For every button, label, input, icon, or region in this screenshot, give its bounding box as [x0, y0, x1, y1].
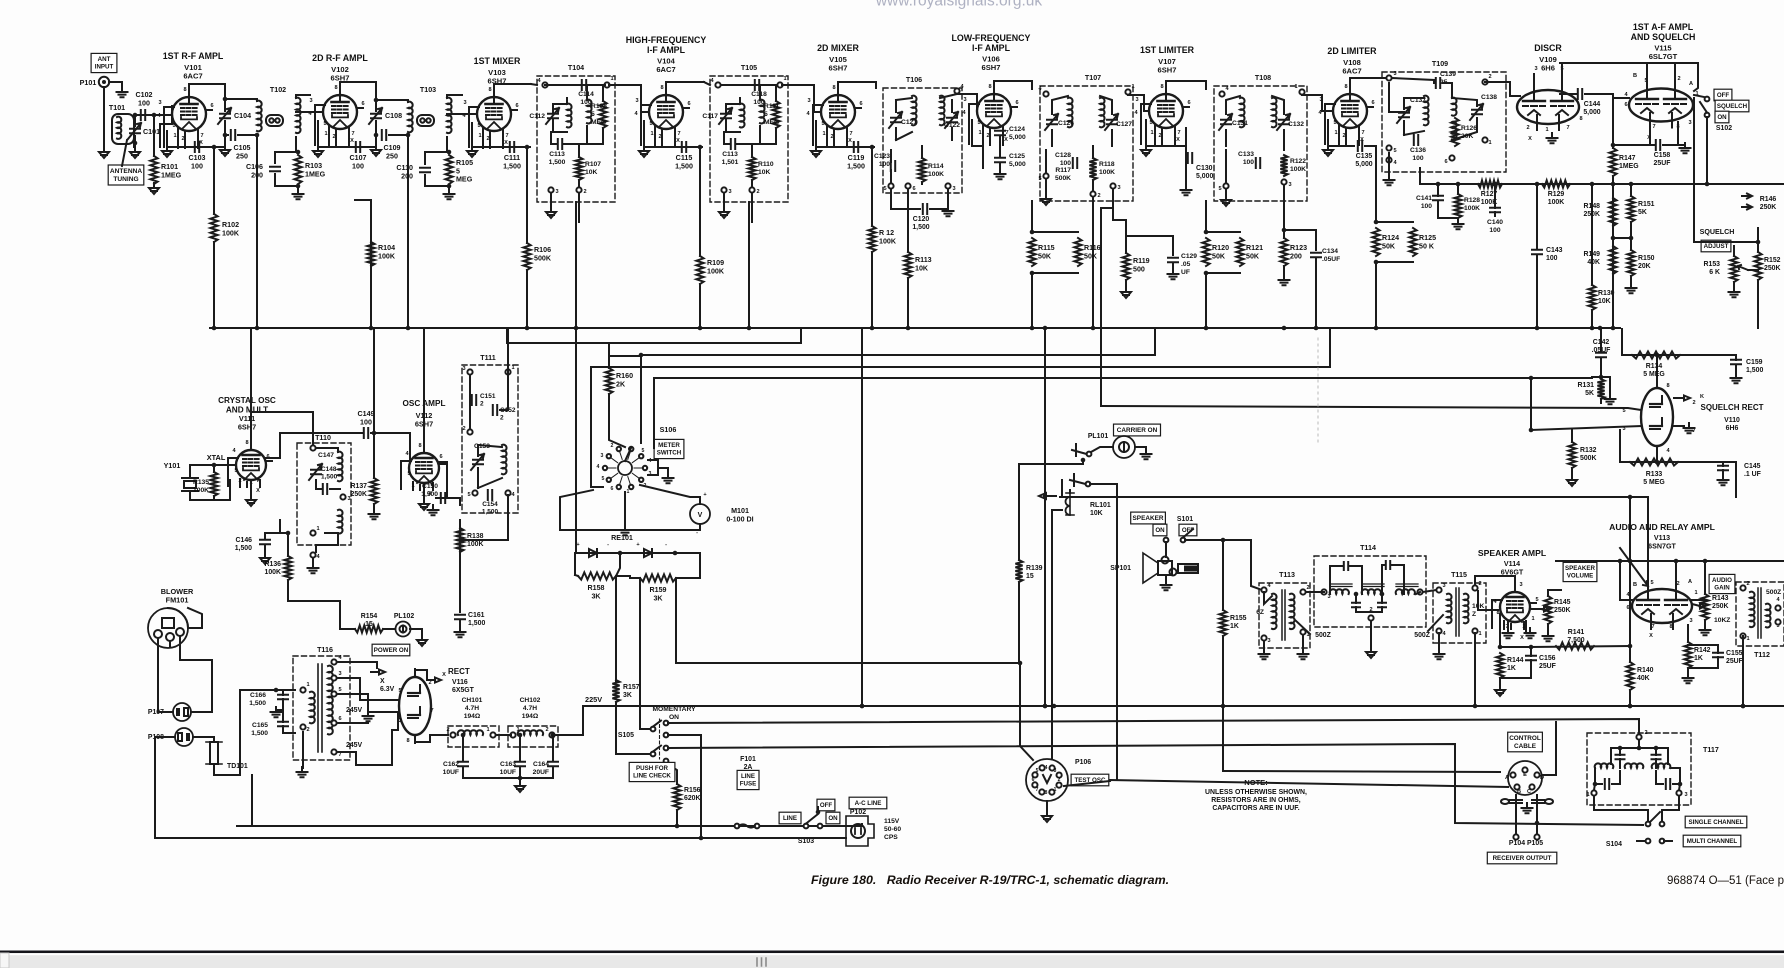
wire down to bus	[256, 135, 258, 328]
label POWER ON	[372, 644, 410, 656]
resistor R150	[1627, 250, 1634, 276]
svg-text:A-C LINE: A-C LINE	[855, 800, 882, 807]
svg-text:C132: C132	[1288, 121, 1304, 128]
ground	[1700, 625, 1711, 635]
wire	[1530, 647, 1532, 656]
wire bus to R137	[373, 329, 375, 478]
T115 terminal 3	[1436, 587, 1441, 592]
T111 winding	[502, 445, 507, 475]
wire R156 to AC	[676, 810, 678, 826]
svg-text:C1591,500: C1591,500	[1746, 359, 1763, 374]
svg-text:1: 1	[1478, 631, 1481, 637]
wire	[1621, 329, 1623, 355]
T110 terminal 3	[340, 494, 345, 499]
resistor R133	[1630, 458, 1678, 465]
capacitor C121	[891, 118, 901, 122]
ground	[1279, 275, 1290, 285]
junction	[223, 133, 228, 138]
wire P104 lead	[1515, 795, 1517, 834]
svg-text:5: 5	[338, 687, 341, 693]
svg-text:5: 5	[883, 186, 886, 192]
svg-text:T111: T111	[480, 354, 495, 362]
wire	[999, 164, 1001, 172]
svg-text:X: X	[848, 138, 852, 144]
ground	[1221, 195, 1231, 206]
svg-text:3: 3	[1117, 185, 1120, 191]
wire	[726, 103, 740, 105]
ground	[1041, 194, 1051, 205]
junction	[133, 113, 138, 118]
wire R102 to AVC bus	[213, 242, 215, 328]
wire	[1688, 657, 1718, 668]
junction	[212, 326, 217, 331]
junction	[286, 531, 291, 536]
wire blower lead 2	[180, 643, 212, 703]
wire	[1264, 592, 1272, 604]
wire R106 to bus	[526, 270, 528, 328]
wire cathode	[472, 123, 530, 147]
ground	[1168, 269, 1179, 279]
wire	[1457, 218, 1459, 222]
wire	[425, 175, 449, 186]
wire	[1375, 160, 1377, 222]
wire	[545, 84, 605, 86]
ground	[1684, 423, 1695, 433]
wire	[1283, 130, 1285, 150]
svg-text:P106: P106	[1075, 759, 1091, 766]
transformer T103 core	[417, 115, 434, 126]
ground	[1141, 449, 1152, 459]
capacitor C119	[854, 142, 858, 152]
resistor R160	[605, 368, 612, 394]
ground	[943, 206, 954, 216]
svg-text:R1345 MEG: R1345 MEG	[1643, 363, 1665, 378]
T117 terminal 1	[1591, 790, 1596, 795]
wire	[1356, 607, 1371, 612]
wire	[552, 747, 554, 760]
wire	[1046, 801, 1048, 812]
capacitor C122	[947, 118, 957, 122]
wire	[264, 533, 266, 538]
wire	[340, 601, 355, 629]
wire	[1594, 784, 1595, 790]
rotary switch S106	[603, 447, 647, 489]
svg-text:1: 1	[1545, 127, 1548, 133]
wire	[459, 621, 461, 630]
transformer T109	[1382, 72, 1506, 172]
wire	[553, 103, 567, 105]
wire	[282, 699, 284, 710]
T111 terminal 2	[467, 429, 472, 434]
svg-text:R135100K: R135100K	[193, 479, 209, 494]
wire	[1376, 221, 1413, 223]
T106 terminal 3	[945, 183, 950, 188]
svg-text:1: 1	[486, 727, 489, 733]
svg-text:GAIN: GAIN	[1714, 585, 1730, 592]
junction	[1590, 182, 1595, 187]
loudspeaker SP101	[1143, 553, 1198, 583]
wire	[1536, 184, 1538, 248]
resistor R122	[1280, 155, 1287, 176]
wire	[1185, 128, 1187, 158]
wire	[425, 151, 449, 153]
wire	[1100, 96, 1112, 114]
capacitor C105	[231, 130, 235, 140]
tube V107	[1141, 81, 1189, 145]
resistor R103	[294, 155, 301, 184]
transformer T104	[537, 76, 615, 202]
svg-text:P104 P105: P104 P105	[1509, 840, 1543, 847]
resistor R132	[1568, 442, 1575, 468]
capacitor C112	[548, 114, 558, 118]
svg-text:5: 5	[1393, 148, 1396, 154]
wire	[890, 150, 892, 162]
wire	[1594, 796, 1648, 821]
resistor R124	[1372, 228, 1379, 256]
wire	[591, 367, 603, 487]
junction	[518, 733, 523, 738]
svg-text:2: 2	[1677, 76, 1680, 82]
wire	[1656, 446, 1658, 462]
junction	[1030, 230, 1035, 235]
T104 primary winding	[567, 104, 572, 128]
svg-text:2: 2	[1644, 730, 1647, 736]
T105 primary winding	[740, 104, 745, 128]
svg-text:R137250K: R137250K	[350, 483, 367, 498]
capacitor C165	[278, 722, 288, 726]
svg-text:ANT: ANT	[98, 56, 111, 63]
wire AVC bus	[210, 327, 1620, 329]
wire	[1263, 641, 1265, 652]
wire	[624, 492, 626, 510]
capacitor C102	[141, 110, 145, 120]
wire	[1051, 746, 1053, 758]
junction	[447, 150, 452, 155]
T112 secondary winding	[1766, 604, 1771, 628]
wire	[1090, 484, 1117, 560]
wire	[158, 703, 173, 712]
capacitor C151	[472, 395, 476, 405]
svg-text:X: X	[504, 140, 508, 146]
svg-text:R114100K: R114100K	[928, 163, 944, 178]
junction	[374, 98, 379, 103]
ground	[419, 499, 429, 510]
T107 terminal 4	[1043, 91, 1048, 96]
T111 terminal 1	[505, 369, 510, 374]
wire	[1064, 781, 1110, 786]
svg-text:5: 5	[642, 448, 645, 454]
svg-text:2: 2	[756, 189, 759, 195]
capacitor C149	[364, 428, 368, 438]
T114 core	[1330, 584, 1352, 587]
junction	[1756, 240, 1761, 245]
wire	[1662, 796, 1679, 821]
svg-text:6Z: 6Z	[1256, 609, 1264, 616]
svg-text:K: K	[1700, 394, 1704, 400]
svg-text:S106: S106	[660, 426, 677, 434]
wire	[1735, 462, 1737, 497]
ground	[297, 767, 308, 777]
wire plate lead	[493, 84, 495, 97]
wire	[459, 520, 461, 612]
junction	[639, 353, 644, 358]
wire HV1 to rect	[337, 678, 398, 700]
T110 terminal 4	[310, 552, 315, 557]
junction	[223, 97, 228, 102]
wire	[1630, 276, 1632, 286]
T112 core	[1758, 588, 1761, 638]
wire	[1185, 158, 1187, 188]
wire	[478, 445, 502, 447]
wire	[1663, 122, 1678, 145]
capacitor C148	[311, 470, 321, 474]
transformer T105	[710, 76, 788, 202]
wire V115 pin1 to S102	[1694, 95, 1704, 97]
wire	[238, 134, 257, 136]
resistor R159	[640, 574, 676, 581]
svg-text:8: 8	[1045, 790, 1048, 796]
wire	[759, 85, 761, 100]
svg-text:B: B	[1633, 73, 1637, 79]
junction	[1628, 495, 1633, 500]
T116 terminal 7	[331, 749, 336, 754]
T110 terminal 1	[310, 530, 315, 535]
svg-text:C1481,500: C1481,500	[321, 466, 338, 481]
label OFF	[1714, 89, 1732, 101]
svg-text:MULTI CHANNEL: MULTI CHANNEL	[1687, 838, 1738, 845]
svg-text:8: 8	[1344, 84, 1347, 90]
wire to socket	[1020, 663, 1033, 760]
svg-text:2: 2	[1526, 125, 1529, 131]
svg-text:S105: S105	[618, 732, 634, 739]
svg-text:500Z: 500Z	[1414, 632, 1431, 639]
wire plate to T107	[994, 81, 1032, 89]
wire	[477, 445, 479, 456]
svg-text:C1111,500: C1111,500	[503, 154, 521, 170]
wire	[1355, 594, 1357, 603]
lamp PL101	[1113, 436, 1135, 458]
svg-text:5: 5	[323, 121, 326, 127]
svg-text:8: 8	[418, 443, 421, 449]
svg-text:8: 8	[1160, 84, 1163, 90]
resistor R136	[284, 556, 291, 580]
resistor R140	[1626, 662, 1633, 690]
ground	[455, 627, 466, 637]
T113 primary winding	[1272, 594, 1277, 629]
wire cathode	[1146, 120, 1186, 146]
wire control A	[1225, 771, 1500, 772]
junction	[699, 836, 704, 841]
T114 winding	[1396, 589, 1415, 594]
svg-text:OFF: OFF	[1717, 92, 1730, 99]
svg-text:1ST R-F AMPL: 1ST R-F AMPL	[163, 51, 224, 61]
wire	[370, 242, 372, 265]
switch carrier	[1087, 452, 1092, 457]
svg-text:7: 7	[430, 708, 433, 714]
wire	[1620, 561, 1632, 600]
ground	[371, 145, 381, 156]
T108 terminal 5	[1223, 183, 1228, 188]
wire to R102	[213, 147, 215, 214]
wire pair to bus	[1375, 262, 1377, 328]
wire T101 to C102	[134, 114, 160, 116]
wire	[436, 497, 447, 499]
wire	[895, 128, 897, 140]
wire	[1612, 98, 1614, 148]
wire	[814, 95, 821, 112]
svg-text:1: 1	[1150, 130, 1153, 136]
ground	[620, 525, 631, 535]
T104 terminal 4	[542, 82, 547, 87]
svg-text:2: 2	[181, 136, 184, 142]
wire down to bus	[407, 135, 409, 328]
T109 terminal 5	[1386, 145, 1391, 150]
CH102 winding	[518, 730, 543, 735]
tube V102	[315, 82, 363, 146]
svg-text:2: 2	[1369, 607, 1372, 613]
capacitor T114 Ca	[1344, 562, 1348, 570]
wire V113 plate2	[1675, 561, 1677, 589]
wire	[1630, 222, 1632, 250]
wire	[1619, 430, 1621, 462]
junction	[1043, 704, 1048, 709]
tube V106	[969, 81, 1017, 145]
label PUSH FOR LINE CHECK	[629, 762, 675, 781]
wire	[1613, 97, 1629, 99]
svg-text:500Z: 500Z	[1315, 632, 1332, 639]
wire	[1403, 121, 1405, 135]
svg-text:8: 8	[660, 85, 663, 91]
T113 terminal 2	[1300, 589, 1305, 594]
wire bottom loop	[1620, 461, 1736, 463]
wire run B	[591, 329, 1330, 367]
svg-text:1ST A-F AMPLAND SQUELCH: 1ST A-F AMPLAND SQUELCH	[1631, 22, 1696, 42]
wire	[550, 193, 552, 208]
wire	[1611, 747, 1668, 749]
junction	[518, 776, 523, 781]
ground	[271, 707, 282, 717]
svg-text:R118100K: R118100K	[1099, 161, 1115, 176]
wire antenna lead	[103, 87, 105, 150]
label A-C LINE	[849, 797, 887, 809]
svg-text:V1086AC7: V1086AC7	[1342, 58, 1361, 76]
ground	[811, 146, 821, 157]
wire	[921, 146, 923, 158]
svg-text:R146250K: R146250K	[1760, 196, 1777, 211]
svg-text:8: 8	[1579, 116, 1582, 122]
wire rect output	[415, 735, 448, 742]
wire	[1371, 607, 1382, 612]
T105 terminal 1	[777, 82, 782, 87]
label TEST OSC	[1071, 774, 1109, 786]
wire	[1692, 599, 1705, 601]
wire	[1045, 150, 1047, 173]
connector P101	[99, 77, 109, 87]
T111 terminal 4	[505, 490, 510, 495]
wire	[1500, 660, 1531, 678]
CH101 winding	[458, 730, 483, 735]
potentiometer R153 wiper	[1738, 265, 1748, 270]
wire	[1600, 359, 1602, 377]
junction	[1593, 782, 1598, 787]
resistor R137	[370, 478, 377, 504]
wire	[1416, 592, 1420, 594]
wire	[478, 478, 502, 488]
svg-text:2: 2	[446, 727, 449, 733]
wire	[1388, 153, 1390, 178]
svg-text:R148250K: R148250K	[1583, 203, 1600, 218]
wire plate lead	[1349, 78, 1351, 94]
CH102 terminal 2	[549, 732, 554, 737]
svg-text:C15825UF: C15825UF	[1654, 152, 1671, 167]
svg-text:RECT: RECT	[448, 667, 470, 676]
junction	[1374, 220, 1379, 225]
svg-text:T103: T103	[420, 86, 436, 94]
svg-text:7: 7	[1566, 125, 1569, 131]
resistor R120	[1202, 238, 1209, 266]
ground	[1366, 647, 1376, 658]
capacitor C106	[270, 167, 280, 171]
wire	[460, 495, 508, 540]
wire to R139	[1019, 460, 1083, 560]
svg-text:PUSH FOR: PUSH FOR	[636, 765, 669, 772]
resistor R114	[918, 158, 925, 182]
wire	[759, 126, 761, 144]
wire	[746, 128, 776, 144]
wire to C134	[1284, 230, 1316, 250]
wire	[462, 747, 464, 760]
T112 terminal 4	[1775, 605, 1780, 610]
wire	[578, 193, 580, 222]
wire	[555, 734, 583, 736]
T116 terminal 3	[331, 675, 336, 680]
capacitor C104	[220, 114, 230, 118]
connector P102	[846, 816, 874, 846]
wire	[519, 747, 521, 760]
wire callout leader	[122, 140, 127, 166]
capacitor C113	[558, 139, 562, 149]
junction	[860, 704, 865, 709]
wire	[575, 575, 578, 576]
ground	[1141, 145, 1151, 156]
svg-text:3: 3	[338, 671, 341, 677]
wire plate lead	[1165, 81, 1167, 94]
svg-text:RE101: RE101	[611, 534, 633, 542]
ground	[1525, 628, 1536, 638]
wire push contact	[666, 763, 677, 784]
wire	[552, 768, 554, 778]
svg-text:C108: C108	[385, 112, 402, 120]
wire	[477, 468, 479, 488]
wire control D	[1542, 722, 1556, 775]
svg-text:C147: C147	[318, 452, 334, 459]
capacitor C113	[731, 139, 735, 149]
svg-text:C1245,000: C1245,000	[1009, 126, 1026, 141]
svg-text:X: X	[1520, 635, 1524, 641]
T104 terminal 3	[548, 187, 553, 192]
wire	[1612, 176, 1614, 328]
wire	[1438, 633, 1440, 652]
relay RL101	[1052, 480, 1074, 515]
ground	[1434, 649, 1445, 659]
wire pair to bus	[1205, 273, 1207, 328]
wire T102 to V102 grid	[296, 111, 323, 113]
resistor R101	[150, 156, 157, 184]
capacitor feedthru b	[1532, 800, 1544, 803]
junction	[1498, 645, 1503, 650]
svg-text:1: 1	[411, 483, 414, 489]
wire	[1404, 131, 1424, 135]
